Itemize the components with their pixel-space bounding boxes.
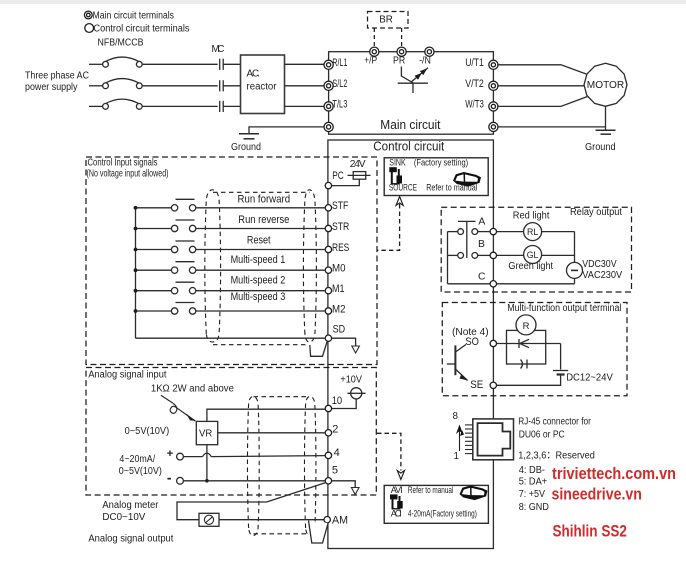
svg-text:Multi-function output terminal: Multi-function output terminal <box>507 303 621 314</box>
svg-text:AM: AM <box>332 515 348 527</box>
svg-text:4: DB-: 4: DB- <box>519 465 545 476</box>
terminal T/L3 <box>324 102 333 111</box>
terminal 10 <box>325 405 331 411</box>
svg-text:A: A <box>478 217 485 228</box>
SINK SOURCE box <box>384 158 488 196</box>
control input signals dashed box <box>86 157 377 365</box>
terminal PC <box>325 182 331 188</box>
terminal STF <box>325 205 331 211</box>
svg-text:RJ-45 connector for: RJ-45 connector for <box>518 416 591 427</box>
battery to SE wire <box>497 375 561 386</box>
meter loop wiring <box>177 483 326 520</box>
SO wire through loop <box>497 343 561 345</box>
svg-text:5: 5 <box>332 464 338 476</box>
legend control circuit terminal symbol <box>85 24 94 33</box>
svg-text:MC: MC <box>212 44 225 55</box>
terminal +/P <box>370 47 379 56</box>
svg-text:Ground: Ground <box>231 142 261 153</box>
input switch bus <box>135 208 137 338</box>
svg-text:Run reverse: Run reverse <box>238 214 289 226</box>
svg-text:8: 8 <box>453 411 459 422</box>
analog signal input dashed box <box>86 368 376 496</box>
svg-text:+: + <box>167 448 173 460</box>
+10V source symbol <box>328 399 356 409</box>
SD ground wire and arrow <box>332 338 356 345</box>
svg-text:Multi-speed 1: Multi-speed 1 <box>231 254 286 266</box>
svg-text:W/T3: W/T3 <box>465 98 484 110</box>
VR box <box>196 421 217 444</box>
svg-text:RES: RES <box>332 242 350 254</box>
wire MC3 to reactor <box>223 105 240 107</box>
ground wire left <box>249 127 325 133</box>
jumper icon sink/source <box>389 167 402 184</box>
top gray strip <box>0 0 686 4</box>
dashed arrow sink/source <box>378 204 400 250</box>
svg-text:Analog meter: Analog meter <box>102 500 159 511</box>
ground symbol left <box>239 134 259 139</box>
svg-text:(No voltage input allowed): (No voltage input allowed) <box>87 169 169 180</box>
wire phase R to MC <box>142 63 218 65</box>
svg-text:A.C.: A.C. <box>247 69 261 80</box>
svg-text:(Factory setting): (Factory setting) <box>414 157 468 167</box>
svg-text:VAC230V: VAC230V <box>582 270 622 281</box>
jumper icon avi/aci <box>390 494 403 509</box>
svg-text:4-20mA(Factory setting): 4-20mA(Factory setting) <box>408 508 477 518</box>
svg-text:triviettech.com.vn: triviettech.com.vn <box>552 465 676 483</box>
svg-text:Control circuit terminals: Control circuit terminals <box>94 23 190 34</box>
RL lamp <box>524 223 542 241</box>
terminal 5 <box>325 478 331 484</box>
BR dashed box <box>368 12 409 29</box>
switch STF (Run forward) <box>136 199 325 208</box>
wire VR wiper to terminal 2 <box>218 432 325 434</box>
svg-text:Multi-speed 2: Multi-speed 2 <box>231 275 286 287</box>
wire phase R input <box>89 63 103 65</box>
svg-text:10: 10 <box>332 395 343 407</box>
breaker pole 1 <box>106 57 140 62</box>
svg-text:SD: SD <box>333 323 346 335</box>
svg-text:Green light: Green light <box>508 261 553 272</box>
multi-function dashed box <box>442 303 627 396</box>
svg-text:ACI: ACI <box>391 508 402 518</box>
svg-text:BR: BR <box>379 15 393 26</box>
svg-text:0~5V(10V): 0~5V(10V) <box>119 466 162 477</box>
wire VR top to terminal 10 <box>207 409 325 421</box>
svg-text:1KΩ 2W and above: 1KΩ 2W and above <box>151 384 235 395</box>
svg-text:S/L2: S/L2 <box>332 78 347 90</box>
right drop to battery <box>560 344 562 370</box>
wire A left <box>448 231 458 233</box>
contact B circles <box>458 253 464 259</box>
svg-text:Shihlin SS2: Shihlin SS2 <box>553 523 627 541</box>
svg-text:AVI: AVI <box>391 485 403 495</box>
svg-text:B: B <box>478 239 485 250</box>
wire phase S to MC <box>142 85 218 87</box>
battery DC12~24V <box>553 371 568 375</box>
contact link bar <box>466 221 468 258</box>
breaker pole 2 <box>106 79 140 84</box>
svg-text:SINK: SINK <box>389 157 405 167</box>
meter symbol <box>199 513 219 526</box>
CONTROL CIRCUIT BOX <box>328 140 494 549</box>
bottom wire C <box>448 283 575 285</box>
terminal SE <box>490 382 496 388</box>
svg-text:Relay output: Relay output <box>570 207 622 218</box>
wire MC2 to reactor <box>223 85 240 87</box>
svg-text:Analog signal input: Analog signal input <box>88 370 166 381</box>
terminal S/L2 <box>324 81 333 90</box>
breaker pole 2 contacts <box>103 83 109 89</box>
contact A circles <box>458 229 464 235</box>
book icon avi/aci <box>460 486 488 501</box>
svg-text:reactor: reactor <box>247 82 278 93</box>
terminal M0 <box>325 267 331 273</box>
terminal 5 ground arrow <box>332 481 356 487</box>
terminal ground left <box>324 122 333 131</box>
rj45 jack body <box>473 419 514 460</box>
svg-text:Main circuit: Main circuit <box>380 118 441 132</box>
diode on SO wire <box>519 339 529 348</box>
node C terminal <box>490 281 496 287</box>
svg-text:NFB/MCCB: NFB/MCCB <box>98 38 144 49</box>
svg-text:Ground: Ground <box>585 142 616 153</box>
wire VR bottom down <box>206 445 208 481</box>
MC contact 2 <box>219 80 221 91</box>
terminal R/L1 <box>324 60 333 69</box>
wire plus to terminal 4 with hop <box>183 453 325 457</box>
svg-text:5: DA+: 5: DA+ <box>519 477 548 488</box>
svg-text:R/L1: R/L1 <box>332 57 347 69</box>
terminal RES <box>325 246 331 252</box>
shield drain funnel analog <box>309 521 329 543</box>
svg-text:2: 2 <box>332 424 338 436</box>
svg-text:VR: VR <box>199 427 213 439</box>
shield ellipse control input <box>205 190 317 345</box>
terminal SO <box>490 340 496 346</box>
svg-text:Red light: Red light <box>513 211 550 222</box>
wire phase S input <box>89 85 103 87</box>
svg-text:1: 1 <box>454 451 459 462</box>
svg-text:-: - <box>167 469 172 485</box>
relay coil R <box>516 315 536 335</box>
BR dashed leads <box>373 28 375 48</box>
wire minus to terminal 5 <box>183 480 325 482</box>
svg-text:RL: RL <box>527 227 538 237</box>
wire V/T2 to motor <box>497 85 584 87</box>
svg-text:1,2,3,6：Reserved: 1,2,3,6：Reserved <box>518 450 595 461</box>
breaker pole 3 <box>106 99 140 104</box>
wire W/T3 to motor <box>497 97 587 107</box>
svg-text:STF: STF <box>332 200 348 212</box>
wire ground right <box>497 126 605 128</box>
rj45 pins <box>465 425 473 454</box>
left bus A-B-C <box>447 232 449 284</box>
svg-text:DU06 or PC: DU06 or PC <box>519 429 565 440</box>
wire B left <box>448 254 458 256</box>
svg-text:Multi-speed 3: Multi-speed 3 <box>231 291 286 303</box>
MAIN CIRCUIT BOX <box>329 52 494 135</box>
svg-text:T/L3: T/L3 <box>332 98 347 110</box>
svg-text:MOTOR: MOTOR <box>587 79 625 91</box>
switch RES (Reset) <box>136 241 325 250</box>
svg-text:0~5V(10V): 0~5V(10V) <box>125 426 170 437</box>
svg-text:PR: PR <box>393 56 405 67</box>
svg-text:24V: 24V <box>350 159 366 170</box>
svg-text:Run forward: Run forward <box>238 193 291 205</box>
svg-text:SE: SE <box>470 379 483 391</box>
RL wire <box>497 231 524 233</box>
svg-text:4: 4 <box>334 447 340 459</box>
motor ground stem <box>605 106 607 130</box>
node B terminal <box>490 252 496 258</box>
wire A right to node <box>478 231 491 233</box>
svg-text:Analog signal output: Analog signal output <box>88 534 173 545</box>
terminal U/T1 <box>489 60 498 69</box>
switch M2 (Multi-speed 3) <box>136 303 325 312</box>
shield drain funnel to SD <box>310 342 327 357</box>
switch M1 (Multi-speed 2) <box>136 282 325 291</box>
legend main circuit terminal symbol <box>84 11 92 19</box>
svg-text:SO: SO <box>465 336 479 348</box>
wire B right to node <box>478 254 491 256</box>
relay load loop <box>497 330 561 385</box>
svg-text:Reset: Reset <box>247 234 271 246</box>
breaker pole 1 contacts <box>103 61 109 67</box>
svg-text:Three phase AC: Three phase AC <box>25 71 89 82</box>
wire MC1 to reactor <box>223 63 240 65</box>
svg-text:U/T1: U/T1 <box>465 57 484 69</box>
svg-text:GL: GL <box>527 250 539 260</box>
wire phase T input <box>89 105 103 107</box>
terminal 4 <box>325 452 331 458</box>
MC contact 3 <box>219 101 221 112</box>
svg-text:PC: PC <box>332 170 344 182</box>
svg-text:Control circuit: Control circuit <box>373 139 444 153</box>
svg-text:C: C <box>478 272 486 283</box>
output transistor <box>447 345 468 381</box>
svg-text:+/P: +/P <box>364 55 377 66</box>
shield ellipse analog <box>247 397 315 536</box>
brake transistor symbol <box>398 67 428 94</box>
terminal AM <box>324 517 330 523</box>
lamp bus vertical <box>574 232 576 284</box>
svg-text:7: +5V: 7: +5V <box>519 489 546 500</box>
terminal PR <box>397 47 406 56</box>
svg-text:STR: STR <box>332 221 349 233</box>
SD return wire <box>136 337 325 339</box>
book icon sink/source <box>453 172 481 187</box>
dashed arrow to AVI/ACI <box>377 433 401 470</box>
motor <box>584 63 627 106</box>
wire U/T1 to motor <box>497 65 587 75</box>
svg-text:M2: M2 <box>332 304 346 316</box>
terminal W/T3 <box>489 102 498 111</box>
svg-text:DC0~10V: DC0~10V <box>102 512 145 523</box>
terminal ground right <box>489 122 498 131</box>
24V supply symbol <box>332 172 371 186</box>
relay output dashed box <box>441 207 631 292</box>
A.C. reactor <box>241 55 285 114</box>
svg-text:Control Input signals: Control Input signals <box>88 158 158 169</box>
switch STR (Run reverse) <box>136 220 325 229</box>
MC contact 1 <box>219 59 221 70</box>
svg-text:power supply: power supply <box>25 82 78 93</box>
ground symbol right <box>596 130 616 134</box>
pin order arrow <box>459 431 461 451</box>
relay power source symbol <box>567 262 583 278</box>
svg-text:R: R <box>523 321 530 332</box>
svg-text:4~20mA/: 4~20mA/ <box>119 454 155 465</box>
switch M0 (Multi-speed 1) <box>136 262 325 271</box>
terminal SD <box>325 335 331 341</box>
svg-text:8: GND: 8: GND <box>519 502 549 513</box>
terminal M2 <box>325 308 331 314</box>
AVI ACI box <box>384 485 488 523</box>
svg-text:-/N: -/N <box>419 55 431 66</box>
surge element on loop bottom <box>521 360 528 369</box>
pot arrow squiggle <box>161 395 195 421</box>
terminal -/N <box>425 47 434 56</box>
MOTOR WIRES <box>497 65 605 130</box>
breaker pole 3 contacts <box>103 104 109 110</box>
svg-text:V/T2: V/T2 <box>465 78 484 90</box>
relay contact wiring <box>448 221 575 283</box>
terminal V/T2 <box>489 81 498 90</box>
svg-text:M1: M1 <box>332 283 345 295</box>
svg-text:sineedrive.vn: sineedrive.vn <box>552 486 642 504</box>
node A terminal <box>490 228 496 234</box>
terminal 2 <box>325 430 331 436</box>
GL lamp <box>524 246 542 264</box>
terminal STR <box>325 225 331 231</box>
svg-text:M0: M0 <box>332 263 346 275</box>
svg-text:Main circuit terminals: Main circuit terminals <box>93 10 175 21</box>
terminal M1 <box>325 288 331 294</box>
wires reactor to inverter input <box>285 64 326 106</box>
wire phase T to MC <box>142 105 218 107</box>
svg-text:VDC30V: VDC30V <box>582 259 617 270</box>
svg-text:DC12~24V: DC12~24V <box>566 372 613 383</box>
svg-text:+10V: +10V <box>340 375 362 386</box>
svg-text:Refer to manual: Refer to manual <box>408 485 454 495</box>
GL wire <box>497 254 524 256</box>
